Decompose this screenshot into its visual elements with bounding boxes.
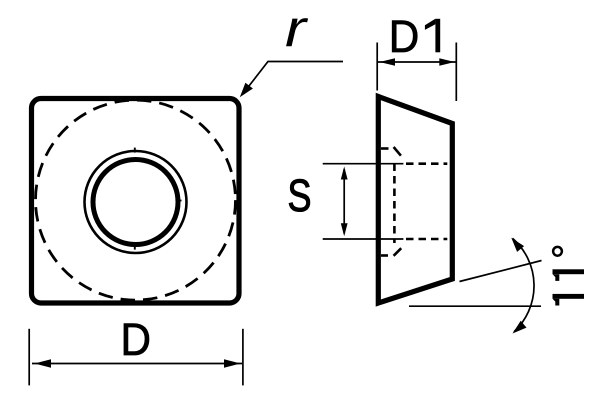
S dimension: top extension line (solid part) <box>323 163 404 165</box>
hole inner circle <box>93 160 178 245</box>
side view: trapezoid outline <box>378 97 452 304</box>
11 degree angle: arc with arrows <box>511 238 534 334</box>
svg-text:r: r <box>285 0 309 58</box>
dimension D1: dimension line with arrows <box>378 58 456 66</box>
hole hidden line: countersink mouth bottom (dashed) <box>381 254 388 257</box>
hole hidden line: bottom chamfer diagonal (dashed) <box>394 248 402 256</box>
hole hidden line: bottom cylinder line (dashed) <box>406 238 447 241</box>
svg-text:D: D <box>389 11 420 62</box>
dimension D: dimension line with arrows <box>32 359 242 367</box>
label S <box>288 170 312 221</box>
hole hidden line: top cylinder line (dashed) <box>406 162 447 165</box>
label D <box>121 314 152 365</box>
svg-text:S: S <box>288 170 312 221</box>
S dimension: vertical line with arrows <box>341 167 348 237</box>
dimension D: extension lines <box>29 329 243 386</box>
11 degree angle: horizontal reference line <box>409 305 541 307</box>
label r <box>285 0 309 58</box>
hole hidden line: countersink mouth top (dashed) <box>381 147 389 150</box>
svg-text:D: D <box>121 314 152 365</box>
11 degree angle: slanted reference line <box>460 261 542 282</box>
label 11 degrees (rotated) <box>553 247 585 306</box>
leader line for corner radius r <box>240 62 343 98</box>
hole centerline tick bottom <box>134 244 136 250</box>
hole outer circle <box>85 151 187 253</box>
label D1 <box>389 11 440 62</box>
inscribed circle (dashed) <box>36 100 236 300</box>
hole centerline tick top <box>134 148 136 153</box>
front view: square insert outline <box>32 99 240 304</box>
S dimension: bottom extension line (solid part) <box>323 238 404 240</box>
hole hidden line: vertical junction line (dashed) <box>393 164 396 244</box>
dimension D1: extension lines <box>377 43 456 102</box>
hole hidden line: top chamfer diagonal (dashed) <box>394 147 401 156</box>
hole centerline tick right <box>178 200 182 202</box>
